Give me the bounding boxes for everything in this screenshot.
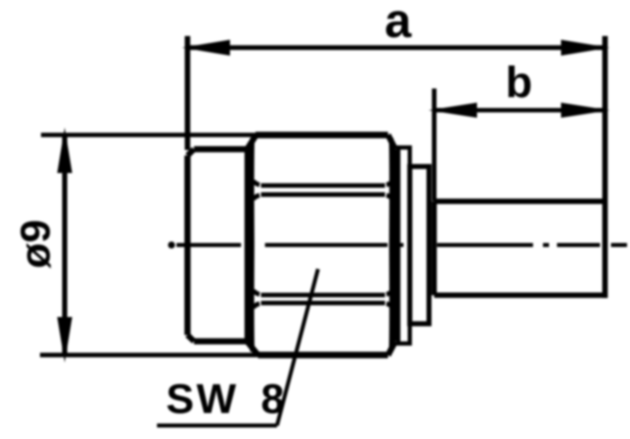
front body / hex boundary — [245, 149, 251, 341]
dimension line b — [434, 108, 605, 112]
centerline dot left — [168, 242, 175, 249]
arrowhead b left — [429, 103, 478, 118]
extension line barrel face (dim b) — [432, 89, 437, 202]
svg-text:a: a — [385, 0, 412, 48]
hex chamfer bottom-right — [388, 341, 395, 355]
svg-text:b: b — [506, 58, 533, 107]
hex flat flare lower-left — [253, 291, 259, 308]
dimension line diameter — [62, 135, 67, 355]
hex right corner edge — [389, 138, 394, 352]
extension line diameter top — [41, 133, 257, 137]
arrowhead diameter down — [57, 317, 72, 363]
hex nut top edge — [256, 132, 389, 138]
extension line rear end (dim a / b) — [602, 36, 608, 298]
rear barrel top — [434, 199, 605, 204]
hex chamfer bottom-left — [247, 341, 258, 355]
hex left corner edge — [250, 138, 255, 352]
rear barrel front face — [432, 201, 437, 295]
extension line diameter bottom — [40, 353, 258, 357]
hex chamfer top-right — [388, 135, 395, 150]
leader underline SW8 — [157, 424, 277, 428]
arrowhead a left — [182, 40, 230, 56]
hex flat flare upper-right — [387, 181, 393, 199]
hex flat edge lower pair — [261, 295, 385, 303]
arrowhead diameter up — [57, 128, 72, 174]
hex flat edge upper pair — [261, 186, 385, 195]
hex nut bottom edge — [258, 352, 388, 358]
front body chamfer top-left — [188, 149, 195, 155]
hex flat flare lower-right — [387, 291, 393, 308]
hex flat flare upper-left — [253, 181, 259, 199]
arrowhead a right — [561, 40, 610, 56]
dimension line a — [188, 45, 606, 50]
extension line front face (dim a) — [185, 36, 191, 150]
svg-text:ø9: ø9 — [12, 219, 59, 268]
washer ring — [398, 148, 410, 344]
front body chamfer bottom-left — [188, 335, 195, 341]
leader line SW8 — [277, 269, 318, 426]
arrowhead b right — [561, 103, 610, 118]
rear barrel bottom — [434, 293, 605, 298]
centerline — [177, 243, 628, 247]
gasket ring — [410, 167, 429, 324]
svg-text:SW 8: SW 8 — [166, 375, 287, 422]
hex chamfer top-left — [247, 135, 256, 149]
front coupling body — [188, 149, 248, 341]
hex right boundary — [392, 149, 398, 341]
